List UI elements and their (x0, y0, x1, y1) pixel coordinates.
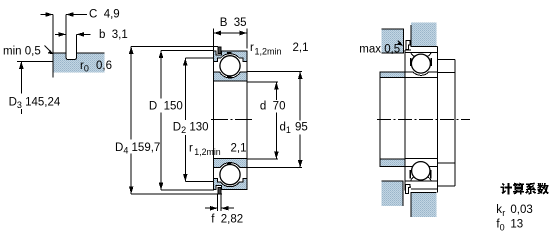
shaft shoulder (bottom) (380, 159, 405, 167)
svg-text:D3 145,24: D3 145,24 (9, 96, 61, 110)
inner ring top section (213, 72, 247, 81)
raceway groove bottom marks (227, 52, 232, 54)
outer ring top section (213, 51, 247, 62)
groove detail ring section (53, 53, 104, 78)
svg-text:2,1: 2,1 (293, 42, 309, 54)
axis centerline (right view) (377, 119, 470, 121)
svg-text:min 0,5: min 0,5 (3, 46, 41, 58)
bearing axis centerline (211, 119, 252, 121)
snap ring (top) (218, 47, 221, 53)
cage (right view bottom) (409, 170, 410, 178)
svg-text:0,6: 0,6 (96, 60, 112, 72)
snap ring (right view top) (406, 41, 410, 50)
svg-text:1,2min: 1,2min (194, 147, 221, 157)
inner ring (right view bottom) (405, 158, 438, 166)
dimension d1 95 (247, 72, 302, 168)
svg-text:r: r (250, 42, 254, 54)
svg-text:D 150: D 150 (149, 101, 183, 113)
ball (top) (220, 56, 240, 76)
svg-text:1,2min: 1,2min (255, 47, 282, 57)
abutment sleeve lines (right side) (438, 59, 455, 186)
svg-text:0: 0 (500, 223, 505, 233)
inner ring bottom section (213, 158, 247, 167)
shaft left edge (379, 72, 381, 167)
ball (bottom) (220, 165, 240, 185)
dimension C 4,9 (41, 15, 88, 53)
svg-text:13: 13 (510, 218, 523, 230)
shaft shoulder (top) (380, 72, 405, 78)
housing block bottom-right (411, 193, 437, 217)
snap ring (right view bottom) (406, 184, 410, 193)
top extension lines D4 / D / D2 (131, 46, 218, 58)
bearing faces (right view) (404, 50, 406, 191)
ball (right view top) (411, 54, 430, 73)
dimension D2 130 (185, 58, 214, 181)
cage (right view top) (410, 58, 411, 66)
svg-text:b 3,1: b 3,1 (99, 29, 128, 41)
svg-text:d 70: d 70 (260, 101, 286, 113)
label 计算系数 (calculation factors), drawn as strokes (501, 183, 549, 195)
housing block bottom-left (382, 181, 403, 206)
svg-text:C 4,9: C 4,9 (89, 9, 120, 21)
dimension D 150 (161, 51, 214, 191)
housing block top-left (382, 29, 404, 53)
dimension f 2,82 (205, 194, 234, 211)
outer ring bottom section (213, 179, 247, 190)
housing block top-right (411, 22, 437, 46)
dimension D3 145,24 (17, 60, 53, 62)
svg-text:max 0,5: max 0,5 (359, 44, 400, 56)
side faces (silhouette) (212, 51, 214, 189)
svg-text:r: r (502, 208, 505, 218)
svg-text:f 2,82: f 2,82 (211, 213, 243, 225)
svg-text:B 35: B 35 (220, 17, 247, 29)
svg-text:D2 130: D2 130 (173, 122, 209, 136)
dimension D4 159,7 (131, 46, 222, 194)
svg-text:95: 95 (295, 122, 308, 134)
svg-text:D4 159,7: D4 159,7 (115, 142, 160, 156)
snap ring (bottom) (218, 188, 221, 195)
svg-text:r: r (189, 143, 193, 155)
svg-text:0,03: 0,03 (510, 204, 532, 216)
dimension b 3,1 (55, 34, 91, 52)
dimension d 70 (247, 82, 278, 159)
outer ring (right view bottom) (405, 177, 438, 189)
svg-text:2,1: 2,1 (231, 143, 247, 155)
ball (right view bottom) (412, 162, 430, 180)
bearing outer ring (right view top) (405, 47, 438, 57)
inner ring (right view top) (405, 72, 438, 78)
